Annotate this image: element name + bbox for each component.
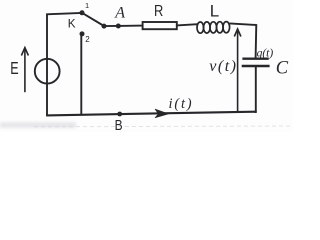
svg-text:v(t): v(t) bbox=[209, 58, 237, 75]
wire left vertical (E branch) bbox=[46, 14, 48, 115]
wire resistor to inductor bbox=[177, 24, 198, 25]
wire top-left horizontal bbox=[46, 13, 82, 14]
wire contact 2 down to bottom rail bbox=[80, 36, 82, 115]
switch K contact 2 bbox=[80, 31, 85, 36]
wire capacitor down to bottom rail bbox=[255, 67, 257, 112]
wire pivot to resistor bbox=[104, 25, 143, 28]
scan artifact band bottom-left bbox=[0, 122, 76, 128]
i(t) current arrowhead on bottom rail bbox=[155, 109, 168, 117]
svg-text:C: C bbox=[276, 58, 289, 78]
node B dot bbox=[117, 112, 122, 117]
svg-text:q(t): q(t) bbox=[257, 48, 274, 60]
svg-text:K: K bbox=[68, 16, 76, 30]
switch pivot junction dot bbox=[102, 24, 107, 29]
svg-text:2: 2 bbox=[85, 35, 90, 44]
svg-text:R: R bbox=[154, 3, 163, 20]
scan artifact faint line bottom bbox=[34, 125, 293, 128]
v(t) voltage arrow bbox=[234, 29, 241, 112]
bottom rail wire bbox=[46, 112, 257, 116]
inductor L coil loops bbox=[197, 22, 230, 34]
svg-text:A: A bbox=[114, 5, 125, 22]
wire top-right corner down to capacitor bbox=[255, 24, 258, 58]
source E circle bbox=[35, 59, 60, 84]
svg-text:L: L bbox=[210, 2, 219, 21]
switch K blade bbox=[82, 13, 104, 26]
svg-text:1: 1 bbox=[85, 1, 89, 10]
capacitor C top plate bbox=[242, 58, 268, 60]
switch K contact 1 bbox=[80, 10, 85, 15]
node A dot bbox=[116, 24, 121, 29]
svg-text:E: E bbox=[10, 58, 18, 78]
capacitor C bottom plate bbox=[242, 65, 270, 67]
resistor R bbox=[143, 22, 177, 29]
svg-text:i(t): i(t) bbox=[169, 96, 194, 112]
wire inductor to top-right corner bbox=[230, 23, 257, 25]
E arrow bbox=[21, 48, 28, 93]
svg-text:B: B bbox=[115, 117, 123, 132]
